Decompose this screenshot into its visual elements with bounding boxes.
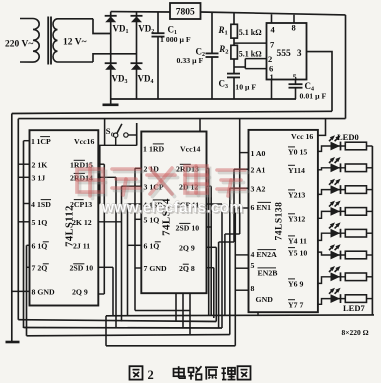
svg-text:7805: 7805 <box>176 8 195 18</box>
svg-text:1SD: 1SD <box>37 200 51 209</box>
svg-text:Y4 11: Y4 11 <box>288 237 307 246</box>
svg-text:LED7: LED7 <box>343 303 365 313</box>
svg-text:8×220 Ω: 8×220 Ω <box>342 328 369 337</box>
svg-text:5: 5 <box>251 261 255 270</box>
svg-text:5.1 kΩ: 5.1 kΩ <box>239 50 262 59</box>
svg-text:1: 1 <box>31 137 35 146</box>
svg-text:74LS138: 74LS138 <box>275 202 285 241</box>
svg-text:6 EN1: 6 EN1 <box>251 203 272 212</box>
svg-text:0.01 μ F: 0.01 μ F <box>300 92 327 101</box>
svg-text:2Q 9: 2Q 9 <box>179 244 195 253</box>
svg-text:EN2B: EN2B <box>258 269 278 278</box>
svg-text:2Q 9: 2Q 9 <box>72 288 88 297</box>
svg-text:2: 2 <box>148 368 154 382</box>
svg-text:8: 8 <box>251 284 255 293</box>
svg-text:Vcc14: Vcc14 <box>180 144 200 153</box>
svg-text:Y312: Y312 <box>288 215 305 224</box>
svg-text:Y0 15: Y0 15 <box>288 148 307 157</box>
svg-text:5.1 kΩ: 5.1 kΩ <box>239 28 262 37</box>
svg-text:2Q 8: 2Q 8 <box>179 264 195 273</box>
svg-text:www.elecfans.com: www.elecfans.com <box>101 200 243 217</box>
svg-text:7 2Q: 7 2Q <box>32 264 48 273</box>
svg-text:4 EN2A: 4 EN2A <box>251 250 278 259</box>
svg-text:6 1Q: 6 1Q <box>144 242 160 251</box>
svg-text:2: 2 <box>268 54 272 64</box>
svg-text:Y114: Y114 <box>288 166 305 175</box>
svg-text:2K 12: 2K 12 <box>72 218 92 227</box>
svg-text:1RD: 1RD <box>149 144 165 153</box>
svg-text:555: 555 <box>277 49 292 59</box>
svg-text:3 1J: 3 1J <box>32 174 46 183</box>
svg-text:4: 4 <box>31 200 35 209</box>
svg-text:Y6 9: Y6 9 <box>288 280 303 289</box>
svg-text:5 1Q: 5 1Q <box>32 218 48 227</box>
svg-text:Y5 10: Y5 10 <box>288 248 307 257</box>
svg-text:220 V~: 220 V~ <box>5 40 33 50</box>
svg-text:Y7 7: Y7 7 <box>288 300 303 309</box>
svg-text:3: 3 <box>297 48 302 58</box>
svg-text:2SD 10: 2SD 10 <box>70 264 94 273</box>
svg-text:2 A1: 2 A1 <box>251 165 266 174</box>
svg-text:0.33 μ F: 0.33 μ F <box>177 56 204 65</box>
svg-text:2J 11: 2J 11 <box>73 242 90 251</box>
svg-text:3 A2: 3 A2 <box>251 184 266 193</box>
svg-text:1: 1 <box>143 144 147 153</box>
svg-text:7 GND: 7 GND <box>144 264 168 273</box>
svg-text:Vcc 16: Vcc 16 <box>291 132 313 141</box>
svg-text:Vcc16: Vcc16 <box>74 137 94 146</box>
svg-text:LED0: LED0 <box>337 132 359 142</box>
svg-text:2 1K: 2 1K <box>32 161 48 170</box>
svg-text:2SD 10: 2SD 10 <box>176 223 200 232</box>
svg-text:10 μ F: 10 μ F <box>235 83 256 92</box>
svg-text:1CP: 1CP <box>37 137 52 146</box>
svg-text:Y213: Y213 <box>288 191 305 200</box>
svg-text:GND: GND <box>256 295 274 304</box>
svg-text:2CP13: 2CP13 <box>70 200 92 209</box>
svg-text:8: 8 <box>292 23 296 33</box>
svg-text:12 V~: 12 V~ <box>63 38 87 48</box>
svg-text:6 1Q: 6 1Q <box>32 242 48 251</box>
svg-text:1 000 μ F: 1 000 μ F <box>160 35 191 44</box>
svg-text:8 GND: 8 GND <box>32 288 56 297</box>
svg-text:1 A0: 1 A0 <box>251 149 266 158</box>
